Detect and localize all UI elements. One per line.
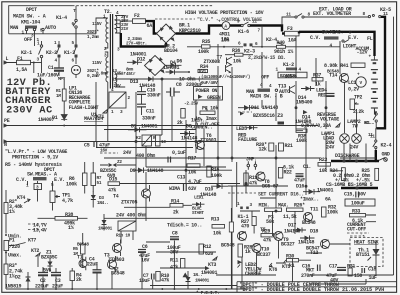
svg-text:OFF: OFF: [24, 37, 32, 43]
svg-text:1N4001: 1N4001: [195, 279, 210, 284]
svg-text:1N4148: 1N4148: [147, 168, 164, 174]
svg-text:10k: 10k: [221, 38, 229, 44]
ammeter A 4M31 10A: [222, 22, 230, 30]
svg-text:1,5A: 1,5A: [16, 67, 27, 73]
svg-text:2k: 2k: [173, 210, 179, 216]
secondary winding 25V (lower): [115, 74, 117, 87]
switch KM1 slider: [25, 26, 37, 29]
dashed LVP line: [100, 152, 118, 154]
svg-text:24V: 24V: [326, 145, 334, 151]
svg-text:K1..: K1..: [365, 121, 374, 126]
wire to transformer: [43, 33, 96, 35]
svg-text:BT151: BT151: [356, 252, 370, 258]
svg-text:BC546: BC546: [285, 75, 297, 80]
svg-text:C5: C5: [84, 143, 90, 149]
svg-text:KT2: KT2: [31, 248, 39, 254]
svg-text:KT5: KT5: [282, 264, 290, 270]
resistor R19 47k: [244, 173, 248, 185]
svg-text:BC548: BC548: [111, 271, 125, 277]
svg-text:C11: C11: [146, 109, 154, 115]
svg-text:115V: 115V: [92, 22, 102, 27]
svg-text:PE: PE: [4, 118, 10, 124]
svg-text:22uF: 22uF: [52, 284, 63, 290]
svg-text:1N4001: 1N4001: [201, 270, 218, 276]
svg-text:SW.MEAS.: SW.MEAS.: [322, 30, 344, 36]
svg-text:HEAT SINK: HEAT SINK: [354, 240, 379, 246]
thick box SW.MEAS top bus: [299, 32, 375, 56]
resistor R28 1k: [238, 244, 242, 257]
diode D11 1N4148: [244, 105, 250, 110]
svg-text:GND: GND: [382, 152, 390, 158]
svg-text:150: 150: [354, 273, 362, 279]
svg-text:0,2V: 0,2V: [348, 87, 359, 93]
svg-text:C18: C18: [368, 267, 376, 273]
svg-text:"DPDT" - DOUBLE POLE DOUBLE TH: "DPDT" - DOUBLE POLE DOUBLE THROW 21.06.…: [240, 287, 385, 293]
main 46.8 wire: [187, 41, 340, 47]
svg-text:0,67A/0,33A: 0,67A/0,33A: [301, 123, 331, 129]
svg-text:115V: 115V: [92, 61, 102, 66]
svg-text:45tr: 45tr: [126, 72, 136, 77]
svg-text:12k: 12k: [259, 147, 267, 153]
svg-text:K1-6: K1-6: [238, 29, 249, 35]
svg-text:C.V.: C.V.: [310, 35, 321, 41]
svg-text:L: L: [6, 56, 9, 62]
svg-text:0,1uF: 0,1uF: [172, 150, 186, 156]
svg-text:D18: D18: [310, 229, 318, 235]
thick shunt bus bottom: [341, 187, 378, 189]
svg-text:FAILURE: FAILURE: [238, 137, 257, 143]
svg-text:2k: 2k: [76, 277, 82, 283]
svg-text:CUT-OFF: CUT-OFF: [347, 227, 366, 233]
svg-text:R17: R17: [188, 156, 196, 162]
svg-text:1N4001: 1N4001: [130, 52, 147, 58]
Umax node: [5, 252, 7, 254]
svg-text:HIGH VOLTAGE PROTECTION - 18V: HIGH VOLTAGE PROTECTION - 18V: [185, 10, 264, 16]
svg-text:-12V: -12V: [357, 49, 368, 55]
svg-text:T11: T11: [310, 207, 318, 213]
svg-text:BZX55C16 Z3: BZX55C16 Z3: [253, 113, 283, 119]
svg-text:*Imax..: *Imax..: [300, 197, 319, 203]
svg-text:1uF/160V: 1uF/160V: [37, 73, 59, 79]
svg-text:K2-4: K2-4: [381, 143, 392, 149]
svg-text:K2-4: K2-4: [266, 37, 277, 43]
HEAT SINK dashed box: [350, 238, 383, 267]
svg-text:4,7uF: 4,7uF: [188, 179, 202, 185]
svg-text:LC1: LC1: [348, 80, 356, 86]
svg-text:K2: K2: [136, 136, 141, 141]
bottom-left rail segment: [150, 285, 237, 287]
svg-text:63V: 63V: [188, 186, 196, 192]
svg-text:1M: 1M: [56, 94, 61, 99]
svg-text:24V: 24V: [350, 145, 358, 151]
svg-text:MAIN SW. - B: MAIN SW. - B: [250, 94, 283, 100]
svg-text:8.98k R41: 8.98k R41: [324, 63, 349, 69]
svg-text:ZTX705: ZTX705: [121, 200, 138, 206]
svg-text:K2-2: K2-2: [46, 50, 57, 56]
svg-text:2k: 2k: [177, 120, 183, 126]
wire mains bottom: [9, 31, 43, 46]
svg-text:1N4001: 1N4001: [317, 188, 334, 194]
svg-text:16V: 16V: [100, 149, 108, 154]
svg-text:KV1: KV1: [199, 69, 207, 74]
svg-text:SET CURRENT D16..: SET CURRENT D16..: [258, 192, 304, 198]
svg-text:51: 51: [97, 181, 102, 186]
svg-text:C13: C13: [177, 175, 185, 181]
title block box: [237, 282, 397, 293]
svg-text:BC548: BC548: [77, 243, 89, 248]
svg-text:100uF: 100uF: [351, 201, 365, 207]
zener D3: [91, 195, 96, 200]
svg-text:K1-2: K1-2: [283, 62, 294, 68]
svg-text:1N4..: 1N4..: [97, 201, 109, 206]
svg-text:1N4007: 1N4007: [38, 117, 55, 123]
thick bus from battery down: [375, 150, 377, 162]
svg-text:SW.MEAS.- A: SW.MEAS.- A: [27, 172, 57, 178]
svg-text:* F.E.I.T.: * F.E.I.T.: [196, 291, 219, 295]
svg-text:230V AC: 230V AC: [6, 106, 53, 117]
thick bus bridge to ammeter: [176, 26, 223, 34]
svg-text:BZX55C: BZX55C: [41, 255, 58, 261]
thick 0V return bus: [121, 33, 166, 47]
resistor R38b 100k: [296, 129, 307, 132]
svg-text:24V: 24V: [123, 150, 131, 156]
cap Z-pair dark: [278, 122, 285, 125]
svg-text:R21: R21: [285, 143, 293, 149]
svg-text:47k: 47k: [161, 278, 169, 284]
svg-text:RED: RED: [318, 93, 326, 99]
resistor R26 11,5k: [287, 208, 304, 211]
diode 1N4001 mid: [183, 273, 189, 278]
big title text: [5, 77, 53, 117]
svg-text:270nF: 270nF: [301, 273, 315, 279]
svg-text:1%: 1%: [68, 225, 74, 231]
diode D14 1N5400: [306, 86, 311, 91]
boxed BC46B2K: [278, 72, 307, 78]
svg-text:10k: 10k: [233, 59, 241, 65]
svg-text:100k: 100k: [327, 210, 338, 216]
svg-text:4,7k: 4,7k: [62, 198, 73, 204]
svg-text:P1: P1: [9, 238, 15, 244]
svg-text:1uF: 1uF: [369, 275, 377, 281]
transformer core: [110, 14, 112, 89]
svg-text:PROTECTION - 9,1V: PROTECTION - 9,1V: [12, 155, 58, 161]
svg-text:BC337: BC337: [257, 252, 271, 258]
svg-text:DPCT: DPCT: [26, 7, 37, 13]
svg-text:BC548: BC548: [302, 220, 316, 226]
diode 1N4003: [102, 220, 107, 225]
svg-text:KM1-104: KM1-104: [21, 20, 40, 26]
svg-text:D.CUT-OFF: D.CUT-OFF: [195, 122, 220, 128]
primary wires: [96, 18, 108, 142]
taps to D13/D12: [115, 74, 146, 87]
thick right bus down: [377, 17, 386, 129]
svg-text:KT7: KT7: [28, 238, 36, 244]
thick bus to F3: [230, 26, 282, 32]
transistor T10 BC337: [252, 244, 261, 253]
relay K1 coil box: [109, 92, 126, 108]
svg-text:1N5400: 1N5400: [296, 100, 313, 106]
svg-text:1N4001: 1N4001: [141, 124, 158, 130]
svg-text:1N4148: 1N4148: [200, 192, 217, 198]
svg-text:D16: D16: [296, 184, 304, 190]
svg-text:1N4001: 1N4001: [98, 227, 113, 232]
svg-text:T14: T14: [329, 73, 337, 79]
svg-text:40V: 40V: [330, 278, 338, 284]
bridge BR.1 KBPC2510: [157, 24, 176, 43]
secondary winding top 27V: [115, 16, 117, 34]
svg-text:1k: 1k: [245, 249, 251, 255]
svg-text:LIGHT: LIGHT: [343, 43, 357, 49]
lamp1 bulb: [340, 134, 350, 144]
svg-text:KT4: KT4: [17, 195, 25, 201]
svg-text:POWER ON: POWER ON: [196, 88, 218, 94]
svg-text:GREEN: GREEN: [207, 95, 221, 101]
diode D18b: [186, 277, 191, 282]
svg-text:10k: 10k: [213, 231, 221, 237]
svg-text:C1: C1: [48, 65, 54, 71]
svg-text:R1b 10: R1b 10: [116, 234, 131, 239]
relay pin wires: [112, 231, 174, 289]
primary winding lower 115V: [106, 57, 108, 82]
svg-text:BC327: BC327: [281, 242, 295, 248]
resistor R7 51: [91, 173, 96, 186]
svg-text:VOLTAGE: VOLTAGE: [320, 117, 339, 123]
taps: [115, 16, 120, 34]
main switch box KM1-104: [9, 6, 72, 34]
resistor 470 mid: [229, 222, 233, 232]
svg-text:12: 12: [112, 78, 117, 83]
svg-text:D11 1N4148: D11 1N4148: [251, 105, 278, 111]
svg-text:6A: 6A: [147, 23, 153, 29]
svg-text:R22: R22: [284, 170, 292, 176]
svg-text:1%: 1%: [9, 209, 15, 215]
svg-text:10A: 10A: [288, 38, 296, 44]
svg-text:KT6: KT6: [269, 267, 277, 273]
svg-text:C1.: C1.: [303, 164, 311, 170]
svg-text:C.V.: C.V.: [16, 177, 27, 183]
svg-text:100k: 100k: [66, 182, 77, 188]
dash-dot top line: [72, 5, 213, 7]
svg-text:C8: C8: [176, 82, 182, 88]
svg-text:K1-4: K1-4: [56, 15, 67, 21]
wires around sw.meas A: [28, 162, 94, 211]
svg-text:C17: C17: [329, 264, 337, 270]
svg-text:K2-1: K2-1: [21, 50, 32, 56]
svg-text:0,8mm: 0,8mm: [96, 72, 108, 77]
svg-text:330nF: 330nF: [147, 93, 161, 99]
svg-text:100k: 100k: [211, 173, 222, 179]
svg-text:KT1: KT1: [96, 114, 104, 120]
svg-text:Z2: Z2: [117, 160, 122, 165]
svg-text:E.V.: E.V.: [348, 35, 359, 41]
svg-text:10uF: 10uF: [139, 278, 150, 284]
svg-text:Tdisch.= 10..: Tdisch.= 10..: [167, 223, 202, 229]
svg-text:BD104: BD104: [164, 48, 178, 54]
svg-text:25V: 25V: [114, 84, 122, 89]
long verticals centre: [136, 79, 162, 221]
svg-text:R12: R12: [203, 244, 211, 250]
zener Z3 BZX55C16: [240, 112, 244, 116]
svg-text:K2-3: K2-3: [244, 49, 255, 55]
svg-text:11: 11: [252, 20, 257, 25]
svg-text:EXT. VOLTMETER: EXT. VOLTMETER: [313, 11, 351, 17]
svg-text:T13: T13: [278, 84, 286, 90]
svg-text:50k: 50k: [266, 219, 274, 225]
primary winding upper 115V: [106, 18, 108, 43]
svg-text:1N4148: 1N4148: [284, 229, 301, 235]
svg-text:AUTO: AUTO: [45, 25, 56, 31]
bridge BR.2 BD104: [145, 56, 166, 76]
thick bus from F2 to bridge: [146, 21, 157, 33]
svg-text:-2.25V: -2.25V: [184, 102, 199, 107]
svg-text:MAN: MAN: [10, 25, 18, 31]
svg-text:2,2kΩ/W-15 ΩΩ.: 2,2kΩ/W-15 ΩΩ.: [248, 55, 286, 61]
svg-text:11: 11: [370, 135, 375, 140]
cap C2 220uF: [38, 272, 48, 274]
cap C3 22uF: [51, 272, 61, 274]
svg-text:13,4V: 13,4V: [33, 228, 47, 234]
svg-text:R35: R35: [202, 39, 210, 45]
svg-text:C15, 50V: C15, 50V: [344, 192, 366, 198]
svg-text:1,2mm: 1,2mm: [87, 35, 99, 40]
svg-text:220uF: 220uF: [35, 284, 49, 290]
svg-text:22uF: 22uF: [87, 262, 98, 268]
svg-text:LED5: LED5: [236, 126, 247, 132]
node T top: [75, 6, 77, 19]
svg-text:24V 400 Ohm: 24V 400 Ohm: [116, 213, 146, 219]
svg-text:FL.: FL.: [367, 36, 375, 42]
svg-text:2,2k: 2,2k: [353, 109, 364, 115]
power on box: [194, 87, 223, 101]
long horizontals: [96, 141, 226, 143]
svg-text:FLASH-LIGHT: FLASH-LIGHT: [69, 105, 99, 111]
svg-text:1%: 1%: [9, 274, 15, 280]
svg-text:470: 470: [241, 224, 249, 230]
svg-text:WIMA: WIMA: [169, 186, 180, 192]
cap C11 330nF: [137, 104, 146, 107]
svg-text:ZTX603: ZTX603: [200, 138, 217, 144]
lamp2 bulb: [352, 134, 362, 144]
svg-text:D2: D2: [15, 275, 21, 281]
svg-text:D13: D13: [130, 79, 138, 85]
transistor T9 BC327: [274, 232, 283, 241]
junction dots: [135, 141, 137, 143]
svg-text:C8: C8: [172, 231, 178, 237]
LED2 YELLOW CHARGE: [238, 260, 243, 264]
svg-text:6A: 6A: [325, 197, 331, 203]
svg-text:D9: D9: [130, 168, 136, 174]
Umin node: [5, 234, 7, 236]
svg-text:E.V.: E.V.: [54, 177, 65, 183]
transistor T8 BC547: [256, 172, 265, 181]
svg-text:D6: D6: [177, 59, 183, 65]
svg-text:330nF: 330nF: [142, 116, 156, 122]
svg-text:TP2: TP2: [354, 95, 362, 101]
svg-text:21V: 21V: [121, 27, 129, 32]
svg-text:100k: 100k: [296, 138, 307, 144]
svg-text:100k: 100k: [198, 49, 209, 55]
svg-text:START: START: [192, 211, 204, 216]
bottom rail junctions: [161, 288, 163, 290]
neon lamp MPT: [71, 65, 80, 74]
svg-text:KT3: KT3: [208, 262, 216, 268]
thin far-right return wire: [393, 17, 395, 275]
svg-text:47k: 47k: [263, 238, 271, 244]
svg-text:CHARGE: CHARGE: [245, 271, 262, 277]
svg-text:BC548: BC548: [221, 243, 235, 249]
svg-text:F2: F2: [134, 13, 140, 19]
svg-text:10: 10: [161, 140, 166, 145]
thick shunt bus top: [331, 160, 379, 162]
svg-text:R13: R13: [211, 217, 219, 223]
svg-text:T4: T4: [113, 194, 119, 200]
svg-text:0uF/40V: 0uF/40V: [201, 81, 218, 86]
pot P3 50k: [265, 208, 282, 211]
svg-text:Umax.: Umax.: [8, 253, 22, 259]
svg-text:1N5819: 1N5819: [5, 284, 22, 290]
